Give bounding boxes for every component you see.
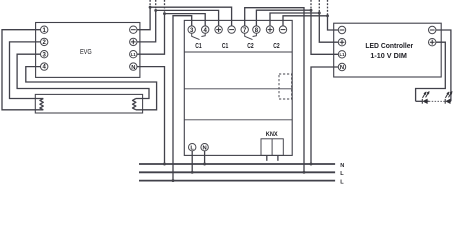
glyph EVG minus — [131, 29, 136, 31]
terminal circle actuator N — [201, 144, 208, 151]
wire LED controller output plus to LED chain — [416, 42, 446, 101]
svg-text:LED Controller: LED Controller — [365, 41, 413, 50]
actuator dashed option box — [279, 74, 292, 99]
terminal circle LED plus in — [338, 39, 345, 46]
wire actuator terminal 3 to bottom L bus — [173, 16, 192, 181]
svg-text:C1: C1 — [222, 43, 228, 50]
wire actuator C2 minus to LED controller minus — [283, 16, 338, 30]
glyph actuator C2 minus — [281, 29, 286, 31]
glyph EVG plus — [131, 40, 136, 45]
EVG electronic ballast box — [36, 23, 140, 78]
relay contact C2 fixed throw — [253, 33, 257, 36]
junction dot EVG minus riser — [149, 6, 152, 9]
junction dot EVG L1 riser — [163, 12, 166, 15]
glyph actuator C1 minus — [229, 29, 234, 31]
wire EVG terminal 2 to lamp left upper pin — [10, 42, 44, 99]
wire EVG terminal 3 to lamp right upper pin — [17, 54, 149, 98]
terminal circle actuator C2 minus — [279, 26, 286, 33]
wire actuator terminal 8 to LED controller L1 — [256, 10, 338, 54]
terminal circle LED N — [338, 63, 345, 70]
LED controller box — [334, 23, 442, 77]
svg-text:L1: L1 — [340, 52, 346, 57]
svg-text:N: N — [203, 145, 207, 151]
wire actuator L terminal to middle L bus — [191, 151, 193, 173]
terminal circle LED minus in — [338, 26, 345, 33]
svg-text:KNX: KNX — [266, 131, 278, 138]
terminal circle actuator L — [189, 144, 196, 151]
svg-text:N: N — [340, 163, 344, 169]
junction dot EVG plus riser — [154, 9, 157, 12]
actuator divider line 1 — [184, 51, 292, 53]
terminal circle LED plus out — [429, 39, 436, 46]
junction dot actuator N on N bus — [203, 163, 206, 166]
dashed stub above EVG plus riser — [155, 0, 157, 10]
actuator divider line 3 — [184, 119, 292, 121]
LED lamp diode D2 — [445, 91, 452, 103]
junction dot LED N on N bus — [310, 163, 313, 166]
terminal circle EVG plus — [130, 38, 137, 45]
terminal circle LED minus out — [429, 26, 436, 33]
terminal circle actuator 8 — [253, 26, 260, 33]
svg-text:L: L — [340, 179, 344, 185]
LED lamp diode D1 — [422, 91, 429, 103]
junction dot terminal 7 wire on L bus — [303, 171, 306, 174]
dashed stub above LED plus riser — [318, 0, 320, 13]
svg-text:C1: C1 — [195, 43, 201, 50]
glyph LED plus in — [340, 40, 345, 45]
junction dot LED plus riser — [318, 12, 321, 15]
junction dot LED L1 riser — [310, 9, 313, 12]
terminal circle actuator 3 — [188, 26, 195, 33]
wire LED controller N to N bus — [311, 67, 338, 164]
L bus line 2 — [139, 180, 335, 182]
glyph LED minus in — [340, 29, 345, 31]
svg-text:L: L — [340, 171, 344, 177]
terminal circle EVG L1 — [130, 51, 137, 58]
terminal circle actuator 7 — [241, 26, 248, 33]
wire actuator N terminal to N bus — [204, 151, 206, 164]
KNX dimming actuator device box — [184, 20, 292, 155]
terminal circle EVG N — [130, 63, 137, 70]
lamp filament left — [40, 99, 43, 110]
junction dot LED minus riser — [326, 14, 329, 17]
svg-text:C2: C2 — [247, 43, 253, 50]
svg-text:N: N — [131, 65, 135, 71]
N bus line — [139, 163, 335, 165]
terminal circle actuator C1 plus — [215, 26, 222, 33]
terminal circle EVG 3 — [41, 51, 48, 58]
relay contact C1 fixed throw — [201, 33, 205, 36]
relay contact C1 blade — [192, 33, 200, 39]
wire EVG plus to actuator C1 plus terminal — [137, 10, 219, 42]
svg-text:N: N — [340, 65, 344, 71]
dashed stub above LED minus riser — [327, 0, 329, 16]
glyph actuator C2 plus — [268, 27, 273, 32]
wire EVG terminal 4 to lamp right lower pin — [26, 67, 157, 110]
LED lamp wire segment left — [416, 100, 423, 102]
lamp filament right — [133, 99, 136, 110]
glyph LED minus out — [430, 29, 435, 31]
terminal circle actuator C1 minus — [228, 26, 235, 33]
relay contact C2 blade — [245, 33, 253, 39]
svg-text:C2: C2 — [273, 43, 279, 50]
actuator divider line 2 — [184, 88, 292, 90]
KNX bus terminal block — [261, 139, 283, 156]
terminal circle EVG minus — [130, 26, 137, 33]
dashed stub above EVG L1 riser — [164, 0, 166, 14]
wire EVG minus to actuator C1 minus terminal — [137, 7, 232, 30]
LED lamp wire segment right — [449, 100, 452, 102]
wire EVG N to N bus — [137, 67, 165, 164]
dashed stub above LED L1 riser — [310, 0, 312, 10]
terminal circle actuator C2 plus — [266, 26, 273, 33]
svg-text:L1: L1 — [131, 52, 137, 57]
KNX bus stub left — [266, 155, 268, 160]
terminal circle EVG 2 — [41, 38, 48, 45]
terminal circle actuator 4 — [202, 26, 209, 33]
wire LED controller output minus to LED chain — [436, 30, 451, 101]
svg-text:L: L — [190, 145, 194, 151]
terminal circle EVG 4 — [41, 63, 48, 70]
glyph LED plus out — [430, 40, 435, 45]
junction dot terminal 3 wire on bottom L bus — [172, 179, 175, 182]
svg-text:EVG: EVG — [80, 49, 92, 56]
terminal circle EVG 1 — [41, 26, 48, 33]
junction dot actuator L on L bus — [191, 171, 194, 174]
wire actuator C2 plus to LED controller plus — [270, 13, 338, 42]
LED lamp wire segment mid — [427, 100, 429, 102]
junction dot EVG N on N bus — [163, 163, 166, 166]
svg-text:1-10 V DIM: 1-10 V DIM — [370, 51, 407, 60]
KNX bus terminal block divider — [271, 139, 273, 156]
wire actuator terminal 7 to middle L bus — [245, 8, 304, 173]
wire EVG terminal 1 to lamp left lower pin — [2, 30, 43, 110]
LED lamp dashed series link — [429, 100, 445, 102]
wire EVG L1 to actuator terminal 4 — [137, 14, 205, 55]
glyph actuator C1 plus — [216, 27, 221, 32]
L bus line 1 — [139, 171, 335, 173]
dashed stub above EVG minus riser — [149, 0, 151, 7]
terminal circle LED L1 — [338, 51, 345, 58]
KNX bus stub right — [277, 155, 279, 160]
fluorescent lamp tube — [35, 94, 142, 113]
